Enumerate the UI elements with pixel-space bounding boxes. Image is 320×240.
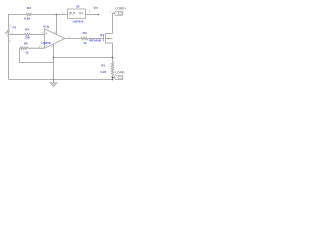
wire LOAD+ down to drain (113, 13, 115, 33)
svg-text:R1: R1 (101, 63, 105, 67)
wire -input from triangle corner (28, 47, 45, 49)
svg-text:1k: 1k (83, 41, 87, 45)
wire pot wiper to R4 (9, 34, 25, 36)
node junction sense (112, 57, 114, 59)
svg-text:LOAD+: LOAD+ (115, 7, 126, 11)
resistor R1 sense (100, 62, 113, 75)
wire op-amp pin4 down to ground rail (53, 44, 55, 80)
wire source down to sense node (112, 43, 114, 62)
svg-text:6.8k: 6.8k (24, 16, 30, 20)
wire R4 to op-amp +input (30, 34, 44, 36)
op-amp U1A LM358 (41, 24, 70, 48)
svg-text:Vin: Vin (93, 6, 98, 10)
node junction LOAD- tap (112, 77, 114, 79)
wire bottom ground rail (9, 79, 113, 81)
svg-text:0.22: 0.22 (100, 70, 106, 74)
wire R2 to U2 (32, 14, 68, 16)
potentiometer P1 (5, 23, 17, 43)
svg-text:10k: 10k (25, 35, 30, 39)
wire top rail left segment (9, 15, 27, 29)
wire R3 to gate (88, 38, 104, 40)
resistor R2 (24, 6, 31, 20)
wire U2 IN to net flag (86, 14, 99, 16)
resistor R4 (25, 27, 31, 39)
svg-text:Q1: Q1 (100, 33, 104, 37)
wire feedback sense line (54, 57, 113, 59)
svg-text:LM7812: LM7812 (73, 19, 84, 23)
wire LOAD- to rail (113, 76, 115, 78)
svg-text:R3: R3 (83, 31, 87, 35)
svg-text:R2: R2 (27, 6, 31, 10)
node junction ground rail (53, 79, 55, 81)
op-amp output wire (65, 38, 81, 40)
svg-text:R5: R5 (24, 42, 28, 46)
svg-text:OUT: OUT (69, 12, 76, 16)
svg-text:LM358: LM358 (41, 41, 51, 45)
connector LOAD- (115, 71, 125, 80)
svg-text:P1: P1 (13, 25, 17, 29)
node junction top rail (56, 14, 58, 16)
svg-text:1k: 1k (25, 51, 29, 55)
svg-text:IRF540N: IRF540N (89, 38, 101, 42)
wire R1 to ground rail (112, 75, 114, 79)
wire R5 down and to ground vertical (20, 48, 54, 62)
wire left rail lower (8, 36, 10, 80)
resistor R3 (81, 31, 88, 45)
transistor Q1 MOSFET (89, 33, 113, 44)
svg-text:LOAD-: LOAD- (115, 71, 125, 75)
wire op-amp V+ from top rail (56, 15, 58, 35)
resistor R5 (20, 42, 28, 55)
voltage regulator U2 (68, 5, 86, 24)
net flag Vin (93, 6, 99, 15)
connector LOAD+ (115, 7, 126, 16)
svg-text:U2: U2 (76, 5, 80, 9)
node junction bottom (112, 79, 114, 81)
svg-text:R4: R4 (25, 27, 29, 31)
ground (50, 80, 58, 88)
node junction feedback (53, 57, 55, 59)
